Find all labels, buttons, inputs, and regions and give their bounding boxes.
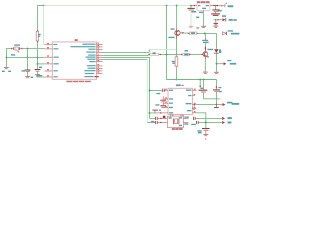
- pin number 7: [97, 58, 98, 59]
- capacitor C6 under D1 junction: [215, 20, 217, 23]
- resistor R1 pull-up: [36, 31, 38, 41]
- IC U1 PIC microcontroller body: [52, 42, 96, 79]
- resistor R6 on base row: [176, 54, 180, 56]
- ground under Q3: [203, 71, 208, 73]
- ground under LED: [214, 71, 219, 73]
- pin number 3: [47, 55, 48, 56]
- pin number bottom x181: [182, 115, 184, 116]
- pin label OUT: [206, 5, 209, 6]
- wire reg OUT: [214, 5, 217, 7]
- value label Q3: [207, 49, 213, 50]
- wire row D down x147.3: [146, 59, 148, 122]
- pin number right y90: [194, 89, 196, 90]
- pin stub Q2 collector right: [180, 32, 184, 34]
- pin number left y103: [165, 102, 167, 103]
- pin stub +5V flag: [217, 5, 224, 7]
- value label PIC16F1829-I/SS: [66, 81, 90, 83]
- pin label U2 right y104.5: [186, 103, 192, 104]
- pin dot left y112.9: [160, 112, 161, 113]
- pin label at reg gnd: [199, 12, 203, 13]
- pin number 9: [97, 53, 98, 54]
- junction node R1/OSC row: [37, 57, 39, 59]
- pin stub row104 right: [217, 104, 222, 106]
- pin dots on +5V stub: [217, 5, 218, 6]
- crystal Y1 body box: [167, 116, 183, 128]
- wire vertical rail to U1 pin1: [43, 6, 45, 45]
- wire U1 row B y55.3: [103, 54, 149, 56]
- net flag row104: [223, 103, 226, 106]
- pin 3 stub left: [44, 56, 52, 58]
- junction node x27 osc row: [27, 57, 29, 59]
- pin label right row9: [87, 65, 96, 66]
- wire to Q3 collector: [204, 43, 206, 46]
- pin label GND: [202, 8, 206, 9]
- pin label right row10: [88, 68, 96, 69]
- pin 4 stub left: [44, 63, 52, 65]
- ground left of U2: [152, 109, 158, 111]
- wire x203.6 down: [203, 80, 205, 90]
- label near U2 ground: [159, 110, 161, 111]
- LED D3: [214, 49, 219, 53]
- pin number 11: [97, 48, 99, 49]
- name label Q2: [170, 28, 174, 29]
- pin 7 stub right: [97, 58, 103, 60]
- value label C14/C15: [191, 124, 196, 125]
- wire C4 to ground: [190, 10, 192, 25]
- wire C5 to ground: [215, 12, 217, 13]
- net label row104: [227, 102, 232, 104]
- pin number 17: [97, 69, 99, 70]
- net label row63: [230, 63, 236, 65]
- resistor R2 vertical pulldown: [175, 55, 177, 57]
- value label R4 inside: [191, 32, 195, 34]
- ground under C5: [211, 13, 220, 15]
- pin number inside row13: [94, 76, 98, 77]
- wire U1 row A y52.3: [103, 51, 150, 53]
- pin number 2: [47, 47, 48, 48]
- pin 13 stub right: [97, 43, 103, 45]
- wire C7 bottom corner right: [204, 92, 220, 98]
- wire C2 to ground: [27, 72, 29, 76]
- wire top VDD rail: [37, 5, 43, 7]
- wire reg gnd down: [203, 13, 205, 25]
- pin number left y99: [165, 97, 167, 98]
- capacitor C2: [25, 69, 31, 71]
- capacitor C15 on row122 right: [196, 121, 198, 124]
- pin dot y118: [160, 118, 161, 119]
- wire stub left of junction: [214, 19, 216, 21]
- pin number 16: [97, 67, 99, 68]
- pin label RC5: [53, 70, 57, 71]
- wire C3 to ground: [36, 72, 38, 75]
- pin 14 stub right: [97, 61, 103, 63]
- wire row118 corner: [150, 117, 156, 119]
- name label above VIN flag: [222, 15, 226, 17]
- pin label U2 right y90: [186, 90, 191, 91]
- wire Q2 emitter down: [175, 39, 177, 55]
- polarity mark +5V: [226, 3, 228, 4]
- pin 8 stub right: [97, 56, 103, 58]
- wire U1 row D y59.3: [103, 58, 148, 60]
- name label LED: [219, 49, 221, 53]
- label near Q3 emitter: [207, 56, 209, 57]
- pin label Y1 inside bottom right: [179, 125, 182, 126]
- capacitor C7 polarized: [199, 89, 208, 91]
- value label C7: [200, 88, 203, 89]
- wire x200 down: [199, 80, 201, 86]
- pin 18 stub right: [97, 72, 103, 74]
- label near C2 gnd: [29, 70, 30, 71]
- pin label U2 right y95.6: [188, 95, 191, 96]
- pin label right row12: [85, 73, 94, 74]
- value label R6 inside: [184, 54, 188, 56]
- junction node supply row19.8: [215, 19, 217, 21]
- transistor Q2 PNP top: [176, 30, 178, 31]
- pin lead R1 bottom: [36, 41, 38, 43]
- pin number 12: [97, 45, 99, 46]
- resistor R3 on row B: [148, 54, 150, 56]
- pin label U2 left y103: [169, 103, 173, 104]
- pin stub Q2 emitter bottom: [176, 36, 178, 39]
- pin number left y90: [165, 89, 167, 90]
- junction node pin4 branch: [37, 63, 39, 65]
- junction node R2 top: [176, 54, 178, 56]
- capacitor C12 on row118: [155, 117, 157, 120]
- pin label Y1 inside top left: [169, 117, 172, 118]
- net flag row63: [224, 62, 227, 65]
- pin number 5: [47, 69, 48, 70]
- net label row33: [231, 33, 240, 35]
- regulator IC1 body: [197, 3, 210, 10]
- pin number 14: [97, 60, 99, 61]
- pin label right row11: [84, 70, 95, 71]
- junction node VDD-R1 branch: [43, 5, 45, 7]
- wire Q2 to D2: [184, 32, 189, 34]
- wire to Q3 base: [191, 53, 197, 55]
- value label C10/C11: [155, 104, 159, 105]
- value label C3: [39, 67, 42, 68]
- net label VIN: [229, 19, 233, 21]
- pin number 15: [97, 64, 99, 65]
- wire pin4 row: [37, 63, 44, 65]
- pin stub to VIN flag: [217, 19, 222, 21]
- pin label right row4: [86, 52, 95, 53]
- capacitor C9 on row90: [161, 89, 163, 92]
- junction node x166 row54.5: [166, 54, 168, 56]
- pin stub U2 bottom x170.7: [170, 114, 172, 117]
- pin 12 stub right: [97, 46, 103, 48]
- junction node rail x176: [176, 5, 178, 7]
- resistor R4 on row33: [190, 32, 197, 35]
- wire branch down x27: [27, 49, 29, 70]
- pin stub flag row63: [220, 63, 224, 65]
- pin 15 stub right: [97, 65, 103, 67]
- pin stub U2 left y90: [164, 89, 168, 91]
- pin stub Y1 left y122: [158, 121, 168, 123]
- net label pin6 row: [37, 75, 43, 76]
- label near reg gnd wire: [196, 17, 199, 19]
- wire Q3 emitter to ground: [204, 59, 206, 71]
- ground hanging below U2 right pin: [193, 105, 195, 108]
- junction node x6 osc row: [6, 57, 8, 59]
- junction node rail x166: [166, 5, 168, 7]
- wire batt branch down: [204, 33, 206, 37]
- ground under C6: [213, 25, 218, 27]
- pin stub Q3 base: [196, 53, 201, 55]
- net flag row118: [222, 117, 225, 120]
- pin stub U2 left y112.9: [157, 112, 168, 114]
- capacitor C3 under R1: [35, 69, 41, 71]
- wire row118 to flag: [196, 117, 222, 119]
- pin 11 stub right: [97, 48, 103, 50]
- value label R3: [153, 52, 156, 54]
- pin number bottom x170.7: [172, 115, 174, 116]
- pin stub Q3 collector: [204, 47, 206, 52]
- pin number 1: [47, 43, 48, 44]
- pin stub U2 right y90: [192, 89, 196, 91]
- junction node x205.8 row122: [205, 122, 207, 124]
- pin dot y122: [160, 122, 161, 123]
- pin stub Q3 emitter: [204, 57, 206, 60]
- wire crystal right to U1 pin2: [23, 48, 44, 50]
- pin stub Y1 left y118: [158, 117, 168, 119]
- pin 5 stub left: [44, 70, 52, 72]
- capacitor C14 on row118 right: [192, 117, 194, 120]
- name label R4 above: [196, 27, 199, 28]
- pin number top: [181, 85, 183, 86]
- junction node row33 batt branch: [204, 33, 206, 35]
- ground under C3: [35, 74, 40, 76]
- pin label RA4: [53, 57, 58, 58]
- pin number 13: [97, 43, 99, 44]
- pin stub U2 right y95.6: [192, 95, 195, 97]
- pin label U2 left y112.9: [169, 112, 173, 113]
- pin 10 stub right: [97, 51, 103, 53]
- net label above row33: [228, 30, 233, 31]
- capacitor C13 on row122: [155, 121, 157, 124]
- pin stub Y1 right y122: [183, 121, 188, 123]
- pin label RC4: [53, 76, 57, 77]
- junction node R2/rail79: [176, 79, 178, 81]
- pin label U2 left y90: [169, 90, 173, 91]
- pin label dot below crystal: [18, 51, 20, 52]
- supply symbol +5V bar: [224, 4, 226, 7]
- net label VBATT two lines: [202, 40, 208, 41]
- junction node x149.9 y112.9: [149, 112, 151, 114]
- capacitor C16 polarized: [202, 128, 210, 130]
- pin stub U2 right y112.8: [192, 112, 196, 114]
- wire R2 bottom to rail79: [175, 69, 177, 80]
- wire jog row A up: [148, 49, 150, 52]
- pin label right y122: [184, 123, 188, 124]
- junction node crystal right branch: [27, 48, 29, 50]
- junction node row104 x216: [216, 104, 218, 106]
- label GND left: [2, 71, 5, 72]
- wire C16 to ground: [205, 131, 207, 134]
- pin dot right y104.5: [194, 104, 195, 105]
- pin stub reg OUT: [210, 5, 214, 7]
- ground under row104 junction: [216, 105, 218, 107]
- pin label MCLR: [53, 63, 58, 64]
- wire LED to ground: [216, 54, 218, 72]
- pin label right row2 long: [70, 46, 95, 47]
- pin label right row6: [86, 57, 96, 58]
- pin number left y107: [165, 106, 167, 107]
- pin label right row8: [89, 61, 95, 62]
- crystal Q1 symbol: [11, 48, 13, 50]
- junction node rail79 x200: [199, 79, 201, 81]
- capacitor C4 at reg input: [190, 6, 192, 8]
- pin stub Y1 right y118: [183, 117, 188, 119]
- pin number 10: [97, 50, 99, 51]
- wire corner x216 down: [216, 33, 218, 48]
- wire row104: [196, 104, 216, 106]
- name label R6 above: [185, 50, 189, 52]
- capacitor C11 vertical: [162, 102, 164, 105]
- pin stub reg GND: [203, 10, 205, 13]
- pin label right row5: [88, 55, 95, 56]
- net label row118: [228, 117, 232, 119]
- transistor Q3 NPN: [203, 52, 208, 57]
- pin dot reg IN: [194, 5, 195, 6]
- pin label RA5: [53, 48, 58, 49]
- wire rail y79.8: [167, 79, 217, 81]
- pin 2 stub left: [44, 48, 52, 50]
- pin number 8: [97, 55, 98, 56]
- junction node OUT cap: [215, 5, 217, 7]
- pin label U2 left y107: [169, 107, 173, 108]
- net flag row122: [222, 121, 225, 124]
- wire R4 to corner x216: [198, 32, 216, 34]
- pin 17 stub right: [97, 70, 103, 72]
- pin stub U2 right y104.5: [192, 104, 196, 106]
- value label C5: [218, 10, 222, 12]
- value label 32.768KHZ: [172, 128, 183, 130]
- supply flag VIN: [222, 18, 225, 21]
- supply flag row33 right: [222, 32, 226, 35]
- value label crystal: [14, 44, 20, 45]
- pin label VDD: [53, 44, 57, 45]
- IC U2 RTC body: [168, 88, 192, 114]
- wire row A pale y49.4: [149, 48, 176, 50]
- value label C4: [191, 11, 196, 13]
- name label U1: [75, 39, 78, 40]
- capacitor C10 vertical: [162, 96, 164, 100]
- junction node x149.9 y90.3: [149, 90, 151, 92]
- crystal symbol inside Y1: [172, 118, 174, 124]
- capacitor C5 at reg output: [215, 6, 217, 10]
- pin label right row1 long: [82, 44, 95, 45]
- wire U1 row C y57.3: [103, 56, 150, 58]
- ground under C4: [189, 25, 194, 27]
- pin 16 stub right: [97, 67, 103, 69]
- wire C8 down to row104: [216, 92, 218, 105]
- pin number 6: [47, 75, 48, 76]
- ground under C16: [203, 133, 208, 135]
- pin label Y1 inside top right: [179, 117, 182, 118]
- value label C12/C13: [151, 121, 154, 123]
- pin 1 stub left: [44, 44, 52, 46]
- pin stub U2 left y107: [164, 107, 168, 109]
- junction node rail/reg input: [190, 5, 192, 7]
- pin 6 stub left: [44, 76, 52, 78]
- wire vertical from rail to R1: [36, 6, 38, 31]
- wire R1 bottom to node: [36, 43, 38, 69]
- wire U2 right y112.8 corner down: [196, 113, 205, 128]
- wire flag row63: [217, 63, 220, 65]
- wire jog row B: [147, 54, 149, 57]
- value label regulator: [197, 1, 210, 3]
- value label C8 two lines: [218, 87, 221, 88]
- wire R3 to R2 junction: [161, 54, 176, 56]
- pin stub U2 bottom x181: [180, 114, 182, 117]
- pin label U2 left y99: [169, 98, 173, 99]
- wire row122 to flag: [199, 121, 222, 123]
- pin number right y104.5: [194, 103, 196, 104]
- wire vertical rail down x166: [166, 6, 168, 80]
- pin label right row3: [88, 49, 95, 50]
- junction node rail79 x203.6: [203, 79, 205, 81]
- pin number 4: [47, 62, 48, 63]
- wire row C down x149.9: [149, 57, 151, 118]
- pin marker blob left of Y1: [163, 116, 166, 118]
- wire crystal left to gnd column: [6, 49, 10, 67]
- junction node LED net flag: [216, 63, 218, 65]
- wire OSC row to U1 pin3: [6, 56, 44, 58]
- pin label right y118: [184, 117, 189, 118]
- pin stub U2 left y99: [164, 98, 168, 100]
- pin number 18: [97, 72, 99, 73]
- ground under regulator: [201, 25, 206, 27]
- pin stub batt branch: [204, 38, 206, 41]
- pin label right row7: [87, 59, 95, 60]
- value label Q2: [168, 37, 174, 38]
- wire row122 corner: [147, 121, 155, 123]
- value label R1 10k: [38, 34, 41, 35]
- pin label IN: [198, 5, 200, 6]
- wire x149.9 to U2 pin y112.9: [150, 112, 158, 114]
- pin label right row13: [84, 76, 93, 77]
- pin stub U2 left y103: [164, 102, 168, 104]
- pin stub x200: [199, 85, 201, 88]
- wire vertical rail to Q1: [176, 6, 178, 30]
- ground under C2: [25, 75, 30, 77]
- value label C9: [156, 93, 160, 94]
- capacitor C8: [216, 80, 218, 86]
- pin lead R1 top: [36, 30, 38, 31]
- pin dot below ground: [205, 138, 206, 139]
- pin 9 stub right: [97, 54, 103, 56]
- pin number right y95.6: [194, 94, 196, 95]
- net label row122: [228, 122, 232, 124]
- value label C2: [22, 70, 25, 71]
- value label C16 two lines: [197, 130, 201, 131]
- net label on OSC row: [11, 54, 15, 55]
- net label +5V: [228, 5, 234, 7]
- label GND under C2: [31, 77, 34, 78]
- pin label U2 right y110.9: [187, 110, 191, 111]
- ground left column: [4, 66, 9, 68]
- value label R2: [172, 61, 175, 62]
- wire pin6 row stub: [36, 76, 44, 78]
- pin stub reg IN: [192, 5, 197, 7]
- name label U2: [176, 84, 181, 86]
- net label above row63: [227, 60, 231, 61]
- wire row90 from x149.9: [150, 89, 162, 91]
- pin number right y112.8: [194, 111, 196, 112]
